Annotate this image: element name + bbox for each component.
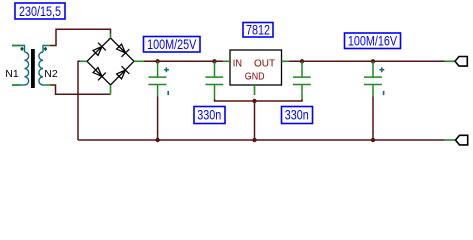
svg-text:N1: N1 <box>5 68 19 80</box>
pin wire N2 bottom <box>43 84 47 86</box>
svg-text:GND: GND <box>245 71 265 83</box>
diode D2 (top-right side) <box>117 44 130 57</box>
connector X1 <box>455 57 467 67</box>
node dot C1 bottom <box>155 138 159 142</box>
wire N2 bottom to bridge bottom <box>51 85 111 94</box>
label 7812 <box>243 22 273 37</box>
node dot C3 top <box>300 59 304 63</box>
bottom rail wire <box>78 139 445 141</box>
svg-text:7812: 7812 <box>246 22 270 37</box>
wire N2 top to bridge top <box>50 29 111 45</box>
wire top rail 7812 OUT to connector <box>289 60 445 62</box>
svg-text:330n: 330n <box>197 107 221 122</box>
wire bridge left corner to bottom rail <box>78 61 80 140</box>
node dot C2 top <box>212 59 216 63</box>
node dot C4 top <box>371 59 375 63</box>
node dot C1 top <box>155 59 159 63</box>
connector X1 pin stub <box>445 60 456 62</box>
winding N1 <box>25 52 29 85</box>
wire top rail bridge to 7812 IN <box>144 60 223 62</box>
svg-text:100M/25V: 100M/25V <box>147 37 197 52</box>
wire C1 to bottom rail <box>157 96 159 140</box>
transformer core <box>31 49 35 88</box>
winding N2 <box>39 52 43 85</box>
wire GND to bottom rail <box>254 101 256 140</box>
label 100M/25V <box>144 37 201 53</box>
7812 pin stubs <box>223 61 289 95</box>
svg-text:IN: IN <box>233 58 242 69</box>
node dot GND <box>252 99 256 103</box>
transformer phase mark right <box>44 47 47 51</box>
node dot C4 bottom <box>371 138 375 142</box>
node dot GND bottom <box>252 138 256 142</box>
capacitor C3 330n <box>293 61 311 99</box>
capacitor C2 330n <box>205 61 223 99</box>
transformer phase mark left <box>20 47 23 51</box>
C1 plus mark <box>164 67 169 72</box>
label 230/15,5 <box>15 3 65 20</box>
diode D1 (left-top side) <box>93 43 106 56</box>
bridge rectifier diamond <box>87 38 134 85</box>
label 330n (C2) <box>194 107 225 124</box>
svg-text:230/15,5: 230/15,5 <box>19 4 61 19</box>
svg-text:330n: 330n <box>285 107 309 122</box>
pin wire N2 top <box>43 46 47 53</box>
label 100M/16V <box>345 33 401 49</box>
wire C4 to bottom rail <box>372 96 374 140</box>
connector X2 <box>456 135 468 145</box>
regulator U1 7812 <box>230 50 282 85</box>
diode D3 (left-bottom side) <box>93 68 106 81</box>
pin wire N1 top <box>12 46 25 53</box>
wire GND net (C2 - GND pin - C3) <box>215 99 303 101</box>
pin wire N1 bottom <box>12 84 25 86</box>
bridge pin stubs <box>80 34 144 95</box>
connector X2 pin stub <box>445 139 456 141</box>
transformer pin stubs green <box>12 46 51 86</box>
svg-text:OUT: OUT <box>254 59 275 70</box>
label 330n (C3) <box>282 107 313 124</box>
transformer TR1 windings <box>12 46 47 86</box>
diode D4 (bottom-right side) <box>117 66 130 79</box>
svg-text:100M/16V: 100M/16V <box>348 33 398 48</box>
C4 minus mark <box>383 91 385 95</box>
C4 plus mark <box>379 67 384 72</box>
svg-text:N2: N2 <box>44 68 58 80</box>
capacitor C4 100M/16V electrolytic <box>364 61 382 96</box>
C1 minus mark <box>167 91 169 95</box>
capacitor C1 100M/25V electrolytic <box>148 61 166 96</box>
